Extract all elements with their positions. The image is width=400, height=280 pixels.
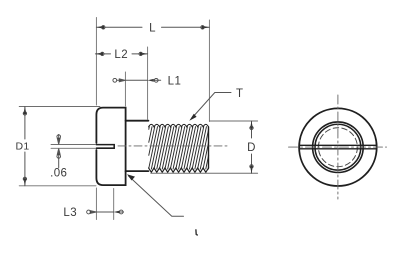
end view shank circle <box>313 122 364 173</box>
thread flank hatch lines <box>149 126 209 169</box>
end view outer circle (head) <box>299 108 377 186</box>
dimension D extension tick bottom <box>151 172 258 174</box>
dimension D1 down arrow <box>23 178 26 186</box>
extension line slot end (L3) <box>113 189 115 220</box>
end view slot lower edge <box>299 148 377 150</box>
thread crests bottom <box>149 168 209 172</box>
extension line thread end <box>208 20 210 122</box>
dimension L1 right arrow (outside) <box>148 79 154 82</box>
svg-text:.06: .06 <box>50 167 67 179</box>
leader to head fillet <box>129 176 184 216</box>
dimension D down arrow <box>250 166 253 174</box>
stray pen mark <box>196 230 197 235</box>
dimension D extension tick top <box>210 120 258 122</box>
dimension L1 left arrow (outside) <box>117 79 125 82</box>
svg-text:L1: L1 <box>168 76 182 88</box>
thread end face <box>208 127 210 168</box>
shank top edge <box>126 120 149 122</box>
leader T arrowhead <box>189 114 196 121</box>
slot in head (side view) <box>96 145 114 149</box>
svg-text:L2: L2 <box>114 49 128 61</box>
dimension L3 line <box>96 211 113 213</box>
dimension L2 left arrow <box>95 52 103 55</box>
slot width .06 upper arrow <box>57 135 60 145</box>
dimension D1 extension tick bottom <box>19 185 96 187</box>
end view horizontal centerline <box>289 146 387 148</box>
slot width .06 lower arrow <box>57 149 60 168</box>
end view vertical centerline <box>337 95 339 199</box>
fillet leader arrowhead <box>127 174 135 180</box>
thread crests top <box>149 124 209 127</box>
dimension L3 right arrow (outside) <box>114 211 120 214</box>
dimension L right arrow <box>202 26 210 29</box>
dimension L3 left arrow (outside) <box>90 211 96 214</box>
dimension D line <box>251 121 253 173</box>
end view thread major circle <box>315 124 361 170</box>
end view thread minor dashed circle <box>318 128 357 167</box>
screw head outline <box>96 108 125 186</box>
slot width extension lines <box>51 145 96 149</box>
dimension D1 line <box>24 107 26 186</box>
end view slot upper edge <box>299 144 377 146</box>
extension line head right face <box>124 72 126 106</box>
dimension L2 right arrow <box>140 52 148 55</box>
dimension L1 line <box>125 79 147 81</box>
svg-text:L: L <box>149 22 156 34</box>
leader from T to threads <box>192 93 232 119</box>
dimension D up arrow <box>250 121 253 129</box>
dimension L line <box>96 26 209 28</box>
svg-text:L3: L3 <box>63 207 77 219</box>
svg-text:T: T <box>236 88 243 100</box>
svg-text:D1: D1 <box>15 140 29 152</box>
svg-text:D: D <box>247 142 255 154</box>
dimension L2 line <box>95 53 147 55</box>
extension line head left face <box>95 18 97 220</box>
shank bottom edge <box>126 170 149 172</box>
centerline of screw <box>118 145 227 147</box>
dimension D1 extension tick top <box>19 106 100 108</box>
dimension D1 up arrow <box>23 107 26 115</box>
extension line thread start <box>147 47 149 120</box>
dimension L left arrow <box>96 26 104 29</box>
